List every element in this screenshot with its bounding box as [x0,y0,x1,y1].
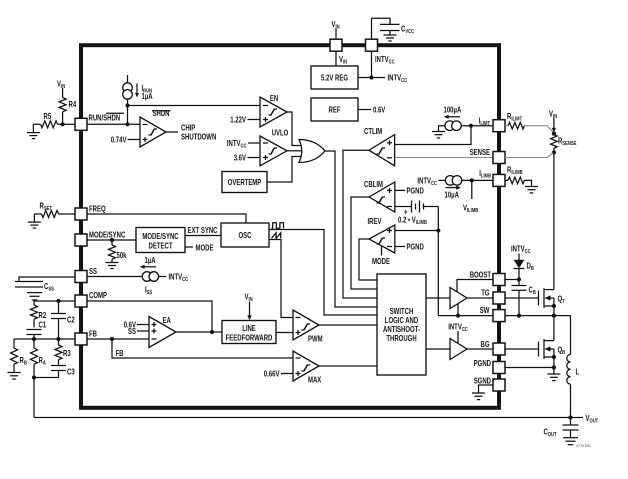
svg-text:PGND: PGND [407,186,424,195]
resistor RA [31,339,46,378]
svg-text:VOUT: VOUT [586,414,599,425]
svg-text:RB: RB [20,356,27,367]
svg-text:VIN: VIN [57,80,65,91]
wire 5.2V REG output to INTVCC node [358,51,407,84]
capacitor C1 [27,321,47,340]
ground RILIMB [525,187,538,193]
block LINE FEEDFORWARD [222,321,276,344]
block 5.2V REG U-reg [311,66,358,89]
svg-text:3776 BD: 3776 BD [576,443,591,448]
wire RA bottom to VOUT sense line [32,375,36,417]
wire FB to divider [14,337,75,341]
wire IREV output to switch logic [359,239,377,280]
wire EXT SYNC detect to OSC [185,226,221,236]
node VILIMB [463,180,478,214]
svg-text:CB: CB [529,286,536,297]
error amp EA [149,316,176,348]
block OSC [221,223,269,247]
wire BOOST pin to CB [505,277,521,281]
pin SGND [474,377,505,392]
pin TG [481,289,505,305]
comparator MAX [293,351,322,385]
svg-text:FREQ: FREQ [89,205,106,214]
pin ILIMT [479,117,505,132]
svg-text:SS: SS [128,327,136,336]
svg-text:RUN/SHDN: RUN/SHDN [89,114,121,123]
capacitor CB [512,280,536,318]
wire COMP to compensation network [34,299,75,303]
comparator SHDN [140,109,171,147]
svg-text:VIN: VIN [339,55,347,66]
svg-text:LOGIC AND: LOGIC AND [385,316,419,325]
svg-text:FB: FB [116,349,124,358]
node SS EA [128,327,149,336]
ground R5 [27,133,40,139]
svg-text:1µA: 1µA [145,256,156,265]
wire UVLO output to OR [287,150,301,152]
pin FREQ [75,205,106,221]
svg-text:ANTISHOOT-: ANTISHOOT- [383,325,420,334]
wire CBLIM output to switch logic [351,197,377,289]
wire PWM to switch logic [319,324,377,326]
svg-text:MODE/SYNC: MODE/SYNC [89,231,125,240]
svg-text:FB: FB [89,330,97,339]
wire BG driver output to BG pin [467,348,493,350]
svg-text:OSC: OSC [239,231,252,240]
svg-text:C2: C2 [67,316,75,325]
comparator CTLIM [364,127,395,166]
pin BOOST [470,271,505,286]
svg-text:1.22V: 1.22V [230,115,246,124]
node INTVCC UVLO [227,139,260,150]
node MODE output stub [185,244,214,253]
svg-text:0.2 • VILIMB: 0.2 • VILIMB [398,216,427,227]
svg-text:C3: C3 [67,368,75,377]
svg-text:PGND: PGND [474,359,491,368]
wire battery to IREV plus and SW [395,207,493,316]
resistor R3 [55,339,71,366]
svg-text:PWM: PWM [308,335,323,344]
capacitor C3 [34,366,75,378]
capacitor CSS [15,277,75,293]
wire IRUN node to EN comparator [125,99,260,126]
svg-text:0.6V: 0.6V [373,106,386,115]
svg-text:INTVCC: INTVCC [169,273,189,284]
wire OR output to switch logic [325,151,377,307]
svg-text:SW: SW [480,306,490,315]
svg-text:ISS: ISS [145,286,152,297]
resistor RB [11,339,27,372]
wire CTLIM output to switch logic [343,150,377,298]
svg-text:OVERTEMP: OVERTEMP [228,178,262,187]
svg-text:10µA: 10µA [445,191,460,200]
block switch logic and antishoot-through [377,274,426,375]
svg-text:C1: C1 [39,321,47,330]
svg-text:DETECT: DETECT [149,242,173,251]
pin BG [481,340,506,355]
svg-text:VIN: VIN [245,293,253,304]
svg-text:R3: R3 [63,349,71,358]
wire BG to QB gate [505,348,539,350]
comparator CBLIM [364,180,395,212]
node PGND IREV [395,243,424,252]
battery 0.2 VILIMB [395,201,439,227]
svg-text:SGND: SGND [474,377,491,386]
wire logic to TG driver [426,297,450,299]
pin SS [75,267,97,283]
svg-text:5.2V REG: 5.2V REG [321,74,348,83]
current source 10uA [417,176,461,200]
svg-text:CVCC: CVCC [401,25,414,36]
wire driver bottom to SW [456,304,460,318]
wire MODE/SYNC pin to detect [87,238,136,242]
wire TG driver output to TG pin [467,297,493,299]
block MODE/SYNC DETECT [136,228,185,253]
wire R4/R5 to RUN/SHDN pin [61,122,76,126]
ground SGND [472,385,493,400]
svg-text:DB: DB [527,262,534,273]
svg-text:MODE: MODE [196,244,214,253]
svg-text:VIN: VIN [549,110,557,121]
wire EA output to LINE FEEDFORWARD [176,330,222,334]
capacitor CVCC [380,24,414,35]
svg-text:EXT SYNC: EXT SYNC [188,226,218,235]
pin SW [480,306,505,322]
node INTVCC DB [511,245,531,261]
capacitor COUT [544,418,579,439]
resistor RILIMT [505,112,554,133]
wire SENSE to RSENSE [505,153,554,158]
svg-text:IREV: IREV [368,217,382,226]
node clock glyph [272,223,284,229]
current source ISS [87,256,188,296]
wire INTVCC pin up to CVCC [372,18,391,39]
svg-text:CTLIM: CTLIM [364,127,382,136]
node ramp glyph [272,233,281,239]
svg-text:SHUTDOWN: SHUTDOWN [181,133,216,142]
node 0.6V REF output [358,106,386,115]
wire FREQ to OSC [87,214,246,223]
comparator PWM [293,310,323,344]
svg-text:CSS: CSS [44,282,54,293]
transistor QT [539,288,566,316]
wire ILIMT node to CTLIM plus [395,126,471,145]
wire COMP right to EA output [87,301,212,332]
svg-text:100µA: 100µA [444,106,462,115]
svg-text:COMP: COMP [89,291,107,300]
svg-text:SS: SS [89,267,97,276]
svg-text:SWITCH: SWITCH [390,307,414,316]
pin RUN/SHDN [75,113,124,130]
svg-text:ILIMB: ILIMB [479,169,491,180]
wire OVERTEMP to OR [267,157,301,183]
wire FB down to MAX [112,339,293,358]
svg-text:INTVCC: INTVCC [227,139,247,150]
pin MODE/SYNC [75,231,125,247]
transistor QB [539,316,566,368]
resistor 50k [109,240,127,262]
ground RB [8,373,21,380]
block OVERTEMP [222,172,267,193]
svg-text:QB: QB [558,346,566,357]
wire PGND to QB source [505,365,556,369]
resistor R4 [59,98,76,125]
pin SENSE [470,148,505,164]
svg-text:ILIMT: ILIMT [479,117,491,128]
comparator UVLO [260,129,288,166]
current source IRUN [123,75,153,101]
pin INTVCC [366,39,395,65]
wire 100uA to ILIMT pin [461,124,493,128]
node INTVCC BG driver [448,323,468,344]
comparator IREV [368,217,395,253]
wire OSC ramp to PWM [269,240,293,318]
wire BOOST to driver top [457,280,493,292]
svg-text:PGND: PGND [407,243,424,252]
resistor RSENSE [551,135,577,155]
node 0.74V [111,135,140,144]
pin COMP [75,291,107,307]
svg-text:LINE: LINE [242,324,256,333]
wire CTLIM minus to SENSE pin [395,157,493,159]
svg-text:MODE/SYNC: MODE/SYNC [142,232,178,241]
svg-text:RSENSE: RSENSE [558,137,577,148]
pin PGND [474,359,505,374]
svg-text:MAX: MAX [308,376,322,385]
resistor RSET [34,202,75,222]
comparator EN [260,94,287,127]
wire MAX to switch logic [319,365,377,367]
svg-text:REF: REF [329,106,341,115]
node VIN RSENSE [549,110,557,136]
ground RSET [28,222,41,228]
ground COUT [563,438,591,448]
driver BG [450,339,467,360]
wire logic to BG driver [426,348,450,350]
chip outline [81,45,499,408]
wire L to VOUT [570,384,572,417]
node VIN feedforward arrow [245,293,253,321]
svg-text:0.74V: 0.74V [111,135,127,144]
node 0.6V EA [124,320,149,329]
svg-text:R2: R2 [39,311,47,320]
svg-text:EA: EA [163,316,171,325]
ground QB source [547,368,560,381]
ground CSS [27,293,42,300]
resistor RILIMB [505,166,532,187]
svg-text:RILIMB: RILIMB [507,166,523,177]
svg-text:EN: EN [270,94,278,103]
svg-text:MODE: MODE [372,257,390,266]
wire VIN pin to 5.2V REG [336,51,347,66]
wire feedforward to PWM [276,332,293,334]
inductor L [567,355,579,385]
wire VOUT sense line [34,414,599,425]
node CHIP SHUTDOWN [166,124,216,142]
node 3.6V [234,153,260,162]
svg-text:BG: BG [481,340,490,349]
pin ILIMB [479,169,505,186]
svg-text:RA: RA [39,356,46,367]
resistor R5 [33,112,62,133]
svg-text:BOOST: BOOST [470,271,491,280]
svg-text:VILIMB: VILIMB [463,204,478,215]
diode DB [514,260,534,280]
svg-text:INTVCC: INTVCC [511,245,531,256]
svg-text:0.66V: 0.66V [264,369,280,378]
svg-text:FEEDFORWARD: FEEDFORWARD [226,334,273,343]
wire 10uA to ILIMB pin [462,178,493,182]
current source 100uA [444,106,462,131]
wire TG to QT gate [505,297,539,299]
svg-text:THROUGH: THROUGH [386,334,416,343]
wire FB to EA [87,337,149,341]
node VIN left label [57,80,65,98]
wire OSC clock to switch logic [269,230,377,316]
svg-text:1µA: 1µA [142,92,153,101]
svg-text:50k: 50k [117,251,127,260]
wire SW to QT/QB and inductor [505,314,571,355]
svg-text:CBLIM: CBLIM [364,180,383,189]
driver TG [450,288,467,309]
svg-text:UVLO: UVLO [272,129,289,138]
svg-text:SENSE: SENSE [470,148,491,157]
or-gate U-OR [299,140,325,163]
block REF [311,98,358,121]
node PGND CBLIM [395,186,424,195]
resistor R2 [31,301,47,328]
node VIN top label [332,20,340,39]
svg-text:RILIMT: RILIMT [507,112,523,123]
ground 100uA [432,126,445,138]
svg-text:COUT: COUT [544,428,558,439]
node 0.66V [264,369,293,378]
wire RUN/SHDN pin to SHDN comparator [87,123,140,125]
pin VIN [330,39,342,51]
capacitor C2 [51,301,75,339]
ground 50k [106,263,119,269]
svg-text:INTVCC: INTVCC [417,176,437,187]
svg-text:QT: QT [558,295,566,306]
svg-text:INTVCC: INTVCC [375,55,395,66]
wire EN output to OR [287,112,301,146]
node MODE IREV [372,246,390,266]
node 1.22V [230,115,260,124]
svg-text:L: L [576,368,580,377]
pin FB [75,330,97,346]
svg-text:TG: TG [481,289,489,298]
svg-text:INTVCC: INTVCC [388,74,408,85]
wire RSENSE down to QT drain [553,153,555,290]
svg-text:3.6V: 3.6V [234,153,247,162]
svg-text:CHIP: CHIP [181,124,196,133]
ground CVCC [384,35,397,41]
svg-text:R4: R4 [69,100,77,109]
